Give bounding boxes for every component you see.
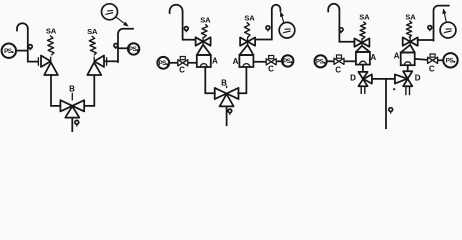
pipe valve A outlet to valve B (panel 2 left) [205,67,215,93]
drain fitting glyph (panel 1) [75,120,79,126]
svg-text:PS: PS [4,48,12,55]
svg-text:SA: SA [244,13,255,22]
orifice fitting (panel 2 right riser) [266,26,270,32]
svg-text:PS: PS [446,58,454,65]
pipe valve A outlet to valve B (panel 2 right) [238,67,246,93]
label A (panel 3 right) [394,52,400,61]
svg-text:SA: SA [46,27,57,36]
pressure switch PS (panel 1 right) [128,43,139,54]
orifice fitting (panel 3 left riser) [339,28,343,34]
svg-text:A: A [370,53,376,62]
svg-text:B: B [221,78,227,87]
wire valve C to PS (panel 3 right) [438,59,444,61]
label C (panel 2 right) [268,64,274,73]
label SA (panel 2 left) [200,15,211,24]
label C (panel 3 left) [335,66,341,75]
wire valve D to drain header (panel 3 left) [372,78,395,80]
svg-text:A: A [233,57,239,66]
pressure gauge (panel 1) [102,4,118,20]
wire valve A to valve C (panel 3 right) [415,59,428,60]
open drain hook pipe (panel 3 left) [328,4,339,12]
open drain hook pipe (panel 2 left) [170,5,183,14]
valve C (panel 3 left) [334,55,344,64]
svg-text:PS: PS [159,60,167,67]
pressure switch PS (panel 1 left) [2,44,16,58]
drain pipe below valve B (panel 2) [226,106,228,126]
drain pipe (panel 3 center) [385,79,387,129]
wire riser to valve A bowtie (panel 3 right) [418,39,434,41]
svg-text:C: C [429,64,435,73]
wire riser to valve SA-2 inlet [104,60,119,62]
pipe valve SA-2 outlet to valve B (panel 1) [84,75,94,106]
valve C (panel 3 right) [428,54,438,63]
pressure gauge (panel 2) [279,22,295,38]
label SA (panel 1 right) [87,27,98,36]
orifice fitting (panel 3 right riser) [428,26,432,32]
wire riser to valve A bowtie (panel 3 left) [339,41,356,43]
pipe valve A to valve D (panel 3 right) [407,65,409,71]
valve D (panel 3 left three-way) [358,72,372,86]
wire valve C to valve A (panel 2 left) [188,62,198,64]
pressure switch PS (panel 2 left) [157,57,169,69]
label SA (panel 2 right) [244,13,255,22]
riser with top elbow (panel 3 right) [434,6,450,41]
svg-text:C: C [335,66,341,75]
deluge valve A (panel 2 left) [196,37,211,67]
svg-text:SA: SA [405,12,416,21]
spring actuator spring (panel 1 left) [48,36,54,56]
riser with top elbow (panel 1 right) [118,29,133,63]
open drain hook pipe (panel 1 left) [17,23,28,31]
wire PS to valve C (panel 2 left) [169,62,178,64]
drain stub below valve D (panel 3 left) [361,87,365,94]
svg-text:PS: PS [129,46,137,53]
svg-text:B: B [69,85,75,94]
riser pipe (panel 1 left) [27,28,29,62]
label A (panel 2 right) [233,57,239,66]
wire valve C to valve A (panel 3 left) [344,60,356,62]
label C (panel 2 left) [179,66,185,75]
svg-text:SA: SA [87,27,98,36]
orifice fitting (panel 1 right riser) [114,44,118,50]
riser pipe (panel 3 left) [338,9,340,43]
wire riser to PS (panel 1 right) [118,47,128,49]
valve D (panel 3 right three-way) [395,71,412,86]
riser pipe (panel 2 left) [182,11,184,41]
spring actuator spring (panel 3 right) [406,21,412,38]
drain fitting glyph (panel 3) [389,108,393,114]
drain pipe below valve B (panel 1) [71,118,73,132]
valve B (panel 2 three-way) [215,86,239,107]
orifice fitting (panel 1 left riser) [28,45,32,51]
pressure gauge (panel 3) [440,22,456,38]
valve C (panel 2 left) [178,57,188,66]
label A (panel 3 left) [370,53,376,62]
wire riser to valve A bowtie (panel 2 left) [182,39,196,41]
svg-text:C: C [268,64,274,73]
spring actuator spring (panel 3 left) [360,22,366,40]
wire valve A to valve C (panel 2 right) [254,61,267,63]
svg-text:D: D [415,74,421,83]
deluge valve A (panel 2 right) [239,37,255,67]
svg-text:A: A [394,52,400,61]
deluge valve A (panel 3 left) [354,38,370,65]
spring actuator spring (panel 1 right) [89,36,96,55]
svg-text:SA: SA [359,12,370,21]
label B (panel 1) [69,85,75,94]
pressure switch PS (panel 3 right) [443,53,457,67]
junction speck (panel 3) [393,88,395,90]
riser pipe (panel 2 right) [271,9,273,40]
label SA (panel 3 right) [405,12,416,21]
svg-text:PS: PS [283,58,291,65]
wire valve C to PS (panel 2 right) [276,60,282,62]
svg-text:SA: SA [200,15,211,24]
label B (panel 2) [221,78,227,87]
label A (panel 2 left) [212,57,218,66]
spring actuator spring (panel 2 right) [244,22,250,37]
valve C (panel 2 right) [266,56,276,65]
valve B (panel 1 three-way) [60,93,84,118]
pipe valve A to valve D (panel 3 left) [362,65,364,72]
svg-text:D: D [350,74,356,83]
svg-text:A: A [212,57,218,66]
wire riser to valve A1 inlet [27,61,38,63]
gauge leader arrow (panel 2) [280,12,284,23]
label SA (panel 1 left) [46,27,57,36]
svg-text:PS: PS [316,59,324,66]
orifice fitting (panel 2 left riser) [184,27,188,33]
wire riser to valve A bowtie (panel 2 right) [255,39,273,41]
valve SA-2 (panel 1 right angle valve) [87,56,106,76]
drain fitting glyph (panel 2) [228,109,232,115]
drain stub below valve D (panel 3 right) [406,87,410,96]
label D (panel 3 left) [350,74,356,83]
spring actuator spring (panel 2 left) [201,24,207,38]
gauge leader arrow (panel 3) [443,9,447,23]
label SA (panel 3 left) [359,12,370,21]
wire PS to riser (panel 1 left) [16,50,28,52]
open drain hook pipe (panel 2 right) [272,5,281,12]
svg-text:C: C [179,66,185,75]
gauge leader arrow (panel 1) [116,17,128,26]
valve SA-1 (panel 1 left angle valve) [38,56,58,76]
wire PS to valve C (panel 3 left) [327,60,335,62]
deluge valve A (panel 3 right) [401,37,418,65]
label C (panel 3 right) [429,64,435,73]
pressure switch PS (panel 3 left) [315,55,327,67]
pipe valve SA-1 outlet to valve B (panel 1) [51,75,60,106]
pressure switch PS (panel 2 right) [282,55,293,66]
label D (panel 3 right) [415,74,421,83]
